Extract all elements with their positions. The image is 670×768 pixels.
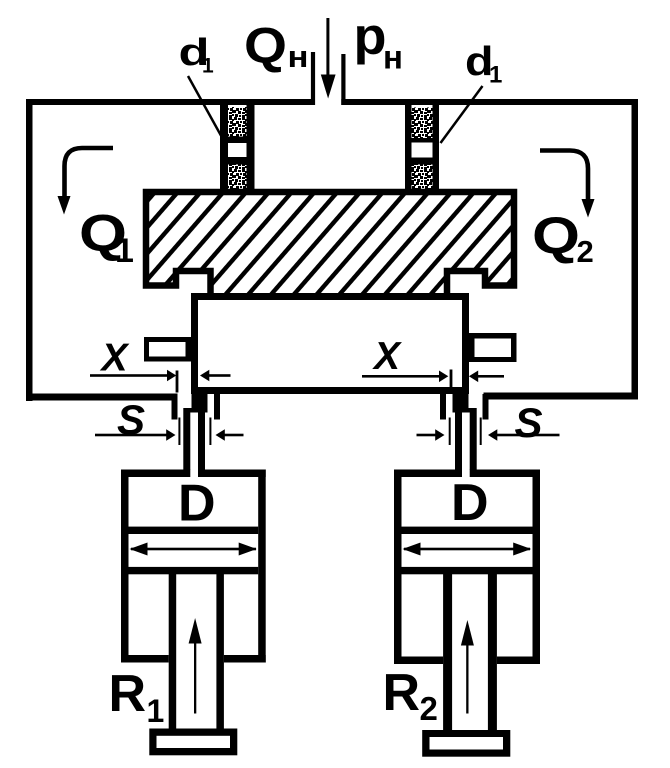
- curved arrow Q1: [58, 148, 114, 215]
- label Q1: [79, 205, 134, 270]
- left piston rod wall right: [216, 574, 224, 729]
- frame bottom wall right: [484, 393, 639, 400]
- svg-text:R: R: [383, 664, 421, 722]
- svg-text:S: S: [117, 396, 145, 443]
- svg-text:D: D: [451, 474, 489, 532]
- frame bottom wall left: [26, 394, 178, 401]
- slide tab right: [469, 333, 517, 362]
- svg-text:X: X: [99, 337, 129, 380]
- nozzle left wall right: [247, 104, 255, 190]
- nozzle right wall left: [405, 104, 412, 190]
- left cylinder bottom edge: [121, 655, 266, 663]
- nozzle right stipple top: [412, 108, 433, 139]
- left valve port wall inner: [214, 390, 220, 420]
- right valve port wall outer: [483, 394, 489, 420]
- label R1: [109, 665, 165, 729]
- left rod wall right: [198, 413, 205, 471]
- x tick left: [176, 371, 179, 393]
- right valve stem: [453, 394, 469, 413]
- svg-text:1: 1: [202, 55, 214, 78]
- right rod wall left: [455, 413, 462, 471]
- nozzle left band lower: [228, 157, 247, 165]
- nozzle left band upper: [228, 137, 247, 144]
- right cylinder wall right: [533, 470, 541, 665]
- nozzle right band upper: [412, 138, 433, 143]
- right piston rod wall right: [488, 574, 497, 730]
- svg-text:D: D: [178, 475, 216, 533]
- S dimension arrows left: [95, 429, 244, 441]
- x dimension arrows right: [362, 371, 504, 383]
- right valve port wall inner: [440, 390, 446, 420]
- left force arrow R1 (up): [189, 618, 202, 714]
- left base plate: [149, 729, 237, 756]
- slide body: [195, 297, 466, 391]
- right piston top: [402, 527, 533, 534]
- svg-text:X: X: [372, 335, 402, 378]
- right cylinder top edge: [394, 470, 540, 478]
- left valve stem: [192, 394, 208, 413]
- left D dimension arrow: [130, 543, 257, 556]
- flapper block (hatched): [146, 192, 514, 297]
- frame left wall: [26, 99, 33, 401]
- right piston rod wall left: [443, 574, 452, 730]
- frame top wall left segment: [26, 99, 315, 105]
- S tick right inner: [449, 418, 451, 446]
- svg-text:R: R: [109, 665, 147, 723]
- right cylinder wall left: [394, 470, 402, 665]
- S tick right outer: [480, 418, 482, 446]
- nozzle left wall left: [220, 104, 228, 190]
- nozzle right band lower: [412, 158, 433, 165]
- label d1 left: [179, 32, 215, 78]
- label pн: [354, 8, 403, 76]
- curved arrow Q2: [540, 151, 595, 218]
- slide tab left: [144, 337, 191, 362]
- d1 pointer line left: [188, 76, 222, 137]
- nozzle right wall right: [433, 104, 440, 190]
- x dimension arrows left: [90, 370, 231, 382]
- S dimension arrows right: [417, 429, 560, 441]
- nozzle right stipple bottom: [412, 165, 433, 191]
- svg-text:S: S: [514, 399, 542, 446]
- left rod flange: [183, 408, 205, 413]
- right D dimension arrow: [403, 543, 532, 556]
- S tick left outer: [178, 418, 180, 446]
- supply arrow Qн (down): [321, 18, 336, 99]
- inlet stub left: [311, 52, 315, 105]
- left cylinder wall left: [121, 470, 129, 663]
- x tick right: [450, 370, 453, 388]
- right rod wall right: [470, 413, 477, 471]
- left piston top: [129, 527, 259, 534]
- label R2: [383, 664, 438, 727]
- right force arrow R2 (up): [461, 620, 474, 714]
- right rod flange: [455, 408, 477, 413]
- label Qн: [244, 18, 309, 75]
- label Q2: [532, 208, 594, 270]
- left piston bottom: [129, 567, 259, 574]
- right base plate: [422, 730, 510, 757]
- label d1 right: [465, 38, 502, 89]
- svg-text:2: 2: [420, 690, 438, 727]
- S tick left inner: [209, 418, 211, 446]
- left cylinder top edge: [121, 470, 266, 478]
- left piston rod wall left: [169, 574, 177, 729]
- left cylinder wall right: [258, 470, 266, 663]
- right cylinder bottom edge: [394, 657, 540, 665]
- svg-text:2: 2: [577, 234, 594, 269]
- svg-text:н: н: [383, 39, 403, 76]
- frame right wall: [632, 99, 639, 399]
- svg-text:1: 1: [489, 62, 502, 89]
- svg-text:1: 1: [115, 232, 134, 270]
- nozzle left stipple bottom: [228, 165, 247, 191]
- left rod wall left: [183, 413, 190, 471]
- svg-text:p: p: [354, 8, 387, 66]
- frame top wall right segment: [341, 99, 638, 105]
- inlet stub right: [341, 54, 345, 105]
- d1 pointer line right: [441, 86, 483, 143]
- svg-text:Q: Q: [532, 208, 580, 266]
- svg-text:Q: Q: [244, 18, 287, 74]
- svg-text:н: н: [288, 39, 309, 74]
- left valve port wall outer: [172, 394, 178, 420]
- svg-text:1: 1: [147, 693, 165, 729]
- right piston bottom: [402, 567, 533, 574]
- nozzle left stipple top: [228, 107, 247, 137]
